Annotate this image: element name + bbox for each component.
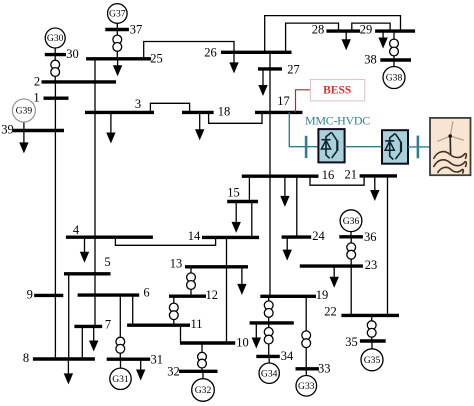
bus 23 xyxy=(300,264,363,267)
line 6-11 xyxy=(132,295,134,325)
wire G30-30 xyxy=(54,48,56,54)
line 26-27-17-16-19 xyxy=(269,52,271,296)
load at bus 39 xyxy=(19,131,28,154)
svg-text:16: 16 xyxy=(322,168,335,182)
wind farm box xyxy=(430,118,471,175)
transformer T6-31 xyxy=(116,295,125,359)
svg-text:G35: G35 xyxy=(364,355,381,366)
bus 2 xyxy=(42,80,117,83)
line 7-8 xyxy=(81,326,83,359)
bus 25 xyxy=(86,57,151,60)
load at bus 27 xyxy=(258,69,267,96)
svg-text:2: 2 xyxy=(34,75,40,89)
AC terminal bar left xyxy=(305,136,308,158)
line 10-11 xyxy=(180,325,182,343)
svg-text:G39: G39 xyxy=(16,106,33,117)
svg-text:BESS: BESS xyxy=(323,85,351,97)
load at bus 23 xyxy=(330,266,339,288)
svg-text:6: 6 xyxy=(143,286,149,300)
transformer T37-25 xyxy=(113,30,122,59)
svg-text:18: 18 xyxy=(218,105,231,119)
wire G39-39 xyxy=(23,122,25,131)
generator G31 xyxy=(110,368,131,389)
line 4-14 xyxy=(115,237,215,245)
transformer T19-33 xyxy=(302,296,311,369)
bus 5 xyxy=(64,272,111,275)
bus 30 xyxy=(45,53,66,56)
bus 9 xyxy=(34,294,63,297)
svg-text:36: 36 xyxy=(364,230,377,244)
bus 38 xyxy=(380,58,411,61)
generator G36 xyxy=(340,210,362,232)
transformer T10-32 xyxy=(198,343,207,371)
load at bus 7 xyxy=(89,326,98,351)
wire BESS to bus 17 xyxy=(296,90,311,113)
svg-text:27: 27 xyxy=(287,63,300,77)
bus 37 xyxy=(105,28,129,31)
bus 24 xyxy=(282,235,312,238)
wire bus 17 to converter (AC side) xyxy=(289,112,318,146)
bus 8 xyxy=(33,357,95,360)
bus 17 xyxy=(255,111,302,114)
bus 33 xyxy=(296,367,319,370)
line 25-2-3-4-5-6-7 xyxy=(94,59,96,327)
line 26-28 xyxy=(286,23,339,52)
load at bus 29 xyxy=(378,31,387,48)
load at bus 25 xyxy=(113,59,122,77)
transformer T12-11 xyxy=(169,296,178,325)
svg-text:23: 23 xyxy=(365,258,378,272)
svg-text:13: 13 xyxy=(170,257,183,271)
load at bus 13 xyxy=(237,267,246,295)
svg-text:28: 28 xyxy=(312,23,325,37)
svg-text:35: 35 xyxy=(345,335,358,349)
bus 1 xyxy=(44,96,69,99)
svg-text:G31: G31 xyxy=(112,374,129,385)
bus 14 xyxy=(202,236,259,239)
svg-text:15: 15 xyxy=(227,186,240,200)
bus 31 xyxy=(107,358,151,361)
svg-text:G37: G37 xyxy=(109,9,126,20)
bus 6 xyxy=(78,293,140,296)
bus 32 xyxy=(179,370,218,373)
svg-text:12: 12 xyxy=(206,288,219,302)
wire G36-36 xyxy=(350,232,352,237)
load at bus 3 xyxy=(106,112,115,143)
wire G37-37 xyxy=(116,24,118,30)
wire G35-35 xyxy=(371,341,373,349)
svg-text:26: 26 xyxy=(204,46,217,60)
line 15-14 xyxy=(251,202,253,238)
svg-text:5: 5 xyxy=(104,255,110,269)
svg-text:31: 31 xyxy=(151,353,164,367)
load at bus 31 xyxy=(136,359,145,380)
transformer T36-23 xyxy=(347,237,356,266)
generator G30 xyxy=(45,28,65,48)
generator G37 xyxy=(108,4,128,24)
wire G31-31 xyxy=(120,359,122,368)
load at bus 28 xyxy=(342,31,351,50)
bus 3 xyxy=(85,111,154,114)
line 16-21 xyxy=(310,176,364,185)
bus 21 xyxy=(360,174,397,177)
generator G38 xyxy=(383,67,405,89)
generator G32 xyxy=(192,379,215,402)
bus 10 xyxy=(180,341,235,344)
load at bus 16 xyxy=(280,176,289,207)
line 25-26 xyxy=(144,42,234,59)
load at bus 8 xyxy=(64,359,73,384)
svg-text:3: 3 xyxy=(135,97,141,111)
bus 12 xyxy=(169,295,206,298)
bus 34 xyxy=(256,355,280,358)
svg-text:29: 29 xyxy=(360,23,373,37)
line 16-24 xyxy=(296,176,298,237)
bus 19 xyxy=(260,295,316,298)
svg-text:1: 1 xyxy=(33,91,39,105)
svg-text:8: 8 xyxy=(23,351,29,365)
MMC converter 1 xyxy=(318,129,344,162)
transformer T22-35 xyxy=(367,315,376,341)
wire G38-38 xyxy=(393,60,395,67)
wire G34-34 xyxy=(268,356,270,363)
load at bus 4 xyxy=(80,237,89,263)
bus 7 xyxy=(74,325,102,328)
load at bus 18 xyxy=(195,112,204,140)
BESS box xyxy=(310,80,364,101)
transformer T20-34 xyxy=(264,323,273,357)
line 26-29 xyxy=(265,16,401,53)
transformer T13-12 xyxy=(187,267,196,296)
line 14-13-10 xyxy=(226,237,228,343)
svg-text:G36: G36 xyxy=(343,216,360,227)
transformer T19-20 xyxy=(264,296,273,323)
load at bus 26 xyxy=(229,52,238,73)
svg-text:G34: G34 xyxy=(261,368,278,379)
line 15-16 xyxy=(248,176,250,201)
load at bus 24 xyxy=(283,237,292,261)
line 18-17 xyxy=(209,112,262,123)
load at bus 20 xyxy=(252,323,261,349)
bus 4 xyxy=(66,235,153,238)
svg-text:37: 37 xyxy=(130,23,143,37)
svg-text:4: 4 xyxy=(73,223,80,237)
svg-text:39: 39 xyxy=(1,123,14,137)
svg-text:24: 24 xyxy=(312,229,325,243)
generator G33 xyxy=(296,376,317,397)
svg-text:G33: G33 xyxy=(298,381,315,392)
line 21-22 xyxy=(387,176,389,316)
generator G39 xyxy=(12,99,35,122)
bus 13 xyxy=(185,265,248,268)
svg-text:G38: G38 xyxy=(386,73,403,84)
DC link wire xyxy=(345,146,382,148)
svg-text:10: 10 xyxy=(236,336,249,350)
line 2-1-39-9-8 xyxy=(54,82,56,359)
svg-text:9: 9 xyxy=(27,288,33,302)
line 28-29 xyxy=(352,23,390,31)
svg-text:34: 34 xyxy=(281,349,294,363)
bus 22 xyxy=(341,314,399,317)
MMC converter 2 xyxy=(382,130,408,164)
bus 29 xyxy=(375,29,415,32)
line 23-22 xyxy=(350,266,352,315)
svg-text:21: 21 xyxy=(345,168,358,182)
bus 18 xyxy=(182,111,214,114)
bus 36 xyxy=(339,235,363,238)
bus 16 xyxy=(242,174,319,177)
svg-text:19: 19 xyxy=(316,288,329,302)
svg-text:MMC-HVDC: MMC-HVDC xyxy=(305,113,370,127)
svg-text:32: 32 xyxy=(167,364,180,378)
wire G32-32 xyxy=(202,371,204,378)
generator G35 xyxy=(361,349,383,371)
svg-text:38: 38 xyxy=(364,53,377,67)
bus 27 xyxy=(258,67,282,70)
svg-text:G32: G32 xyxy=(195,385,212,396)
bus 35 xyxy=(360,339,386,342)
wire G33-33 xyxy=(305,369,307,376)
bus 28 xyxy=(326,29,360,32)
AC terminal bar right xyxy=(417,136,420,159)
svg-text:33: 33 xyxy=(318,362,331,376)
svg-text:25: 25 xyxy=(150,52,163,66)
svg-text:7: 7 xyxy=(105,318,111,332)
svg-text:G30: G30 xyxy=(47,33,64,44)
svg-text:11: 11 xyxy=(190,317,202,331)
generator G34 xyxy=(259,363,279,383)
load at bus 21 xyxy=(370,176,379,201)
transformer T29-38 xyxy=(390,31,399,60)
line 5-8 xyxy=(68,274,70,359)
wire converter 2 to wind farm xyxy=(408,146,430,148)
svg-text:30: 30 xyxy=(66,47,79,61)
transformer T30-2 xyxy=(51,55,60,82)
load at bus 15 xyxy=(232,202,241,233)
line 3-18 xyxy=(150,103,189,112)
bus 39 xyxy=(13,129,64,132)
bus 26 xyxy=(221,51,292,54)
bus 15 xyxy=(227,200,258,203)
bus 11 xyxy=(127,324,190,327)
svg-text:22: 22 xyxy=(324,305,337,319)
bus 20 xyxy=(250,321,294,324)
svg-text:17: 17 xyxy=(277,94,290,108)
svg-text:14: 14 xyxy=(188,229,201,243)
